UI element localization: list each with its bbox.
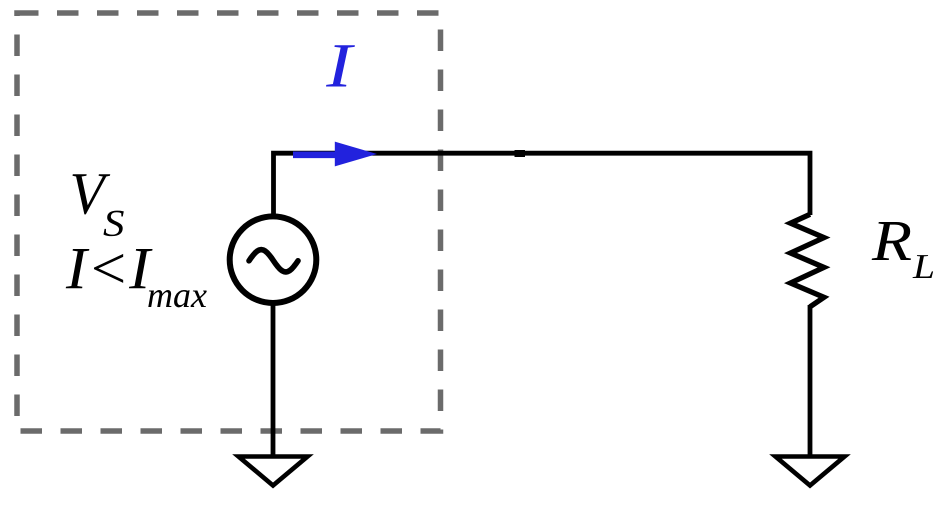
ground (source side) <box>239 457 308 486</box>
label R <box>872 222 911 260</box>
resistor RL zigzag <box>791 214 825 306</box>
wire: source bottom to ground <box>271 304 276 456</box>
label S subscript <box>104 211 124 237</box>
label V <box>73 174 111 214</box>
ground (load side) <box>776 457 845 486</box>
label L subscript <box>913 255 934 278</box>
source-region dashed boundary box <box>17 13 441 431</box>
current arrow I (blue) <box>293 142 377 167</box>
label I<I <box>66 249 153 288</box>
wire: source top to resistor top (net I) <box>274 153 811 216</box>
label I (blue) <box>326 45 355 86</box>
wire junction blob <box>515 150 526 157</box>
label max subscript <box>148 290 206 307</box>
wire: resistor bottom to ground <box>808 305 813 456</box>
AC voltage source VS <box>230 216 317 303</box>
sine symbol <box>249 250 298 272</box>
